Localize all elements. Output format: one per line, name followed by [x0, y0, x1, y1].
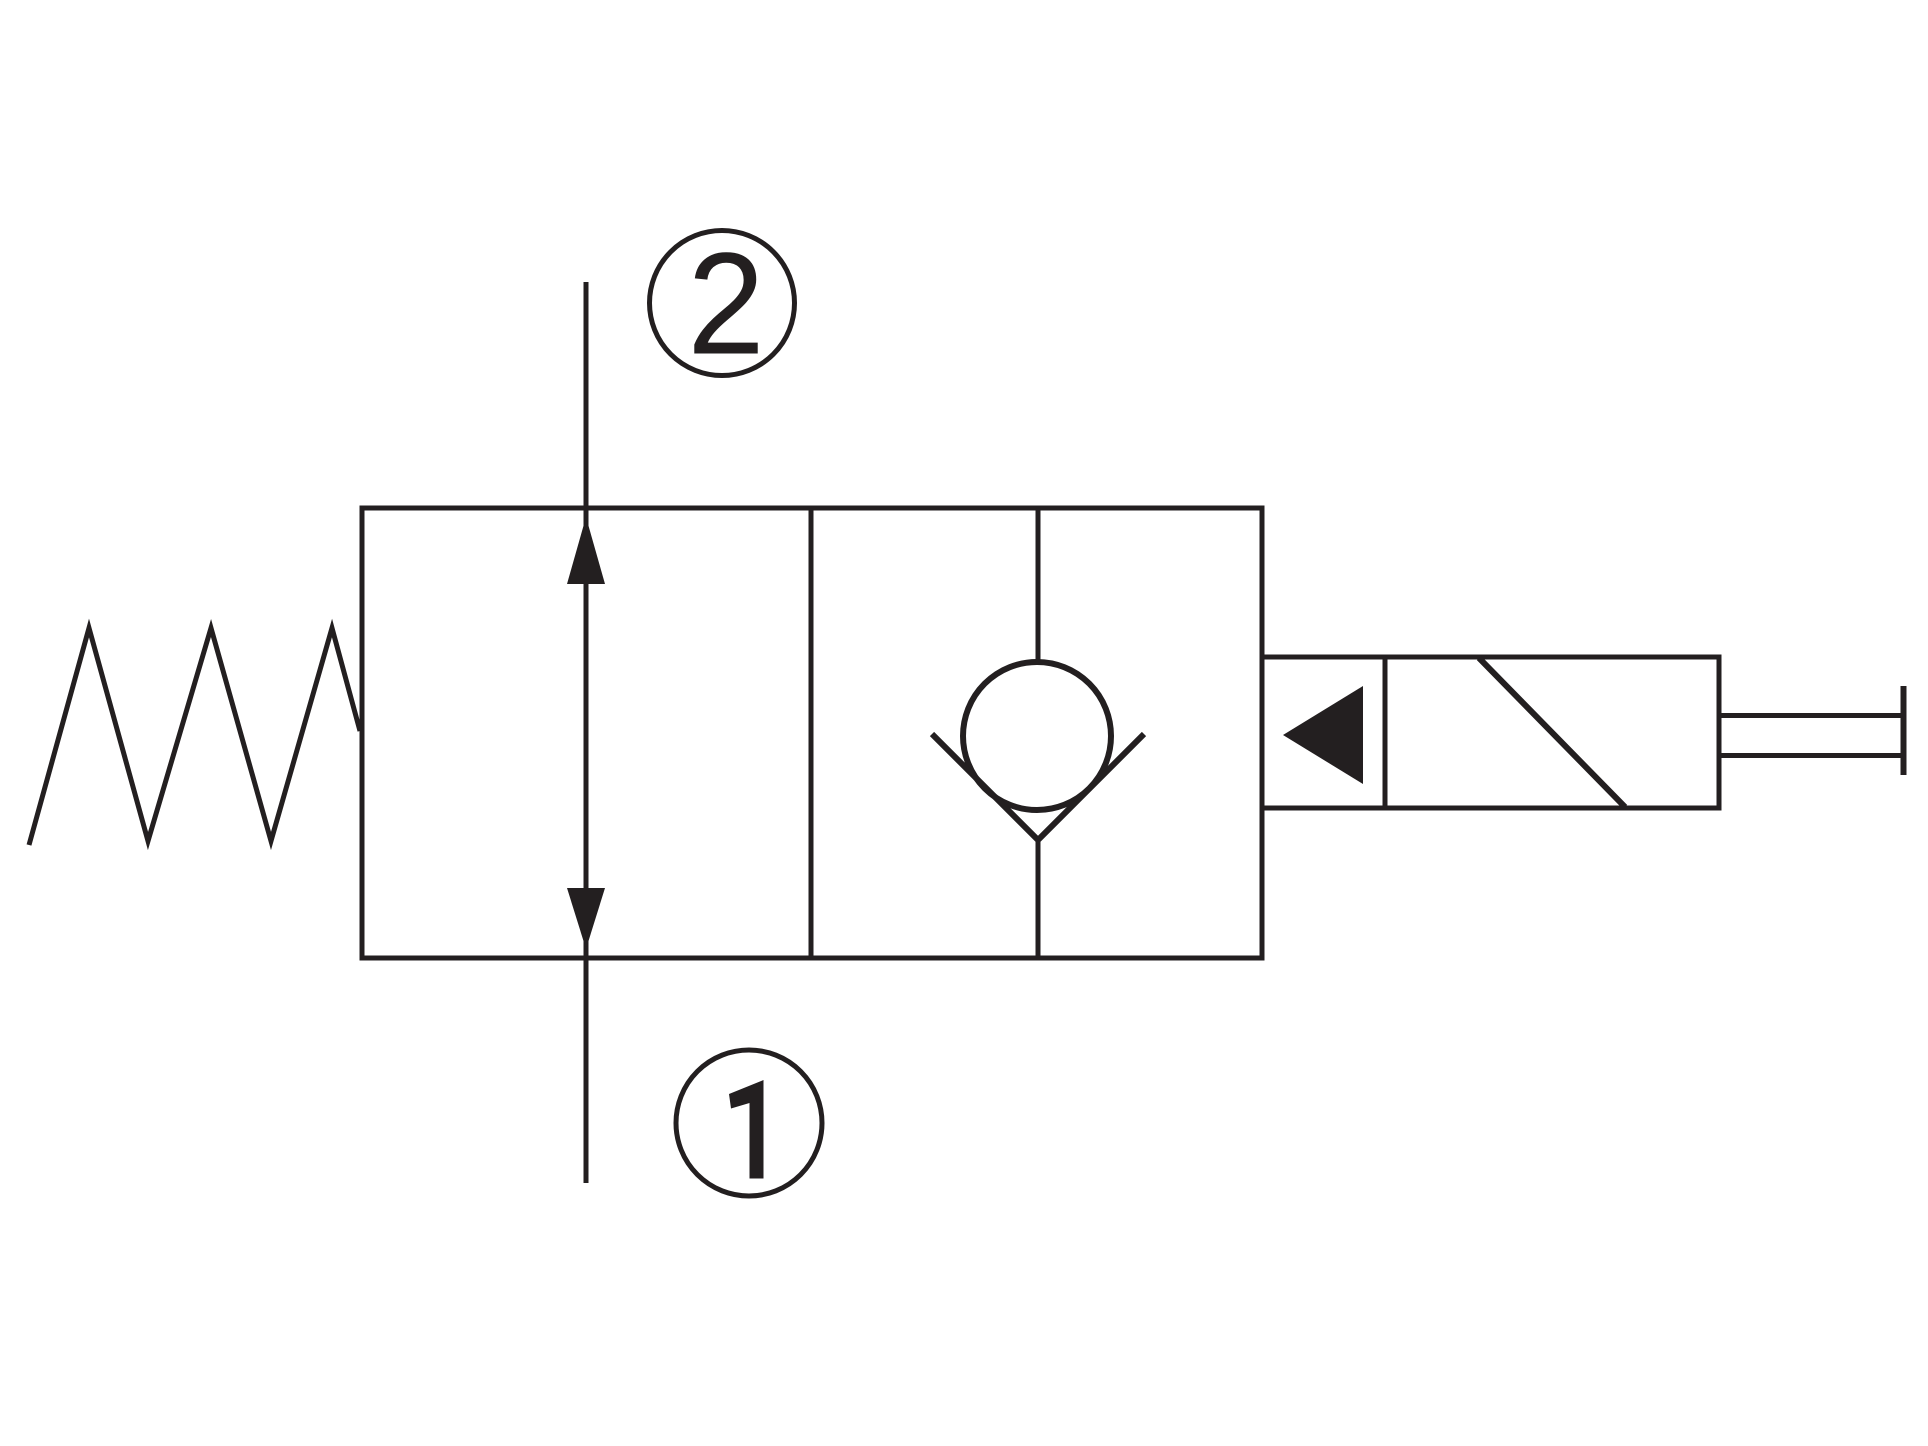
svg-text:2: 2: [687, 223, 764, 385]
